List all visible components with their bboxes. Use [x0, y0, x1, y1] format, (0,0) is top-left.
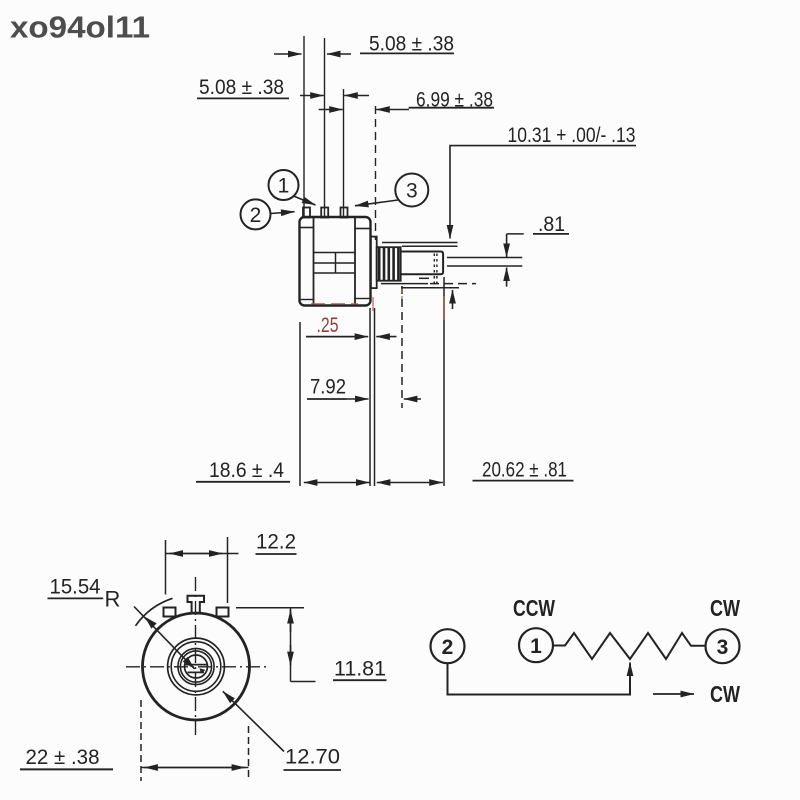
svg-text:20.62 ± .81: 20.62 ± .81: [482, 459, 567, 482]
svg-text:12.70: 12.70: [285, 746, 340, 769]
svg-text:3: 3: [406, 180, 418, 203]
svg-text:CW: CW: [710, 681, 740, 707]
svg-text:R: R: [105, 587, 121, 612]
svg-text:11.81: 11.81: [334, 658, 386, 681]
svg-text:22 ± .38: 22 ± .38: [26, 746, 100, 769]
svg-text:1: 1: [530, 635, 542, 658]
svg-text:xo94ol11: xo94ol11: [10, 10, 150, 45]
svg-text:12.2: 12.2: [256, 531, 296, 554]
svg-text:10.31 + .00/- .13: 10.31 + .00/- .13: [508, 124, 636, 147]
svg-text:15.54: 15.54: [50, 576, 101, 599]
svg-text:3: 3: [717, 636, 729, 659]
svg-text:.25: .25: [317, 314, 339, 337]
svg-text:CW: CW: [710, 595, 740, 621]
svg-text:2: 2: [442, 636, 454, 659]
svg-text:5.08 ± .38: 5.08 ± .38: [369, 33, 454, 56]
svg-text:CCW: CCW: [513, 595, 555, 621]
svg-text:5.08 ± .38: 5.08 ± .38: [199, 76, 284, 99]
svg-text:.81: .81: [538, 213, 565, 236]
svg-text:18.6 ± .4: 18.6 ± .4: [209, 459, 284, 482]
svg-text:1: 1: [278, 175, 290, 198]
svg-text:7.92: 7.92: [310, 376, 346, 399]
svg-text:2: 2: [250, 204, 262, 227]
